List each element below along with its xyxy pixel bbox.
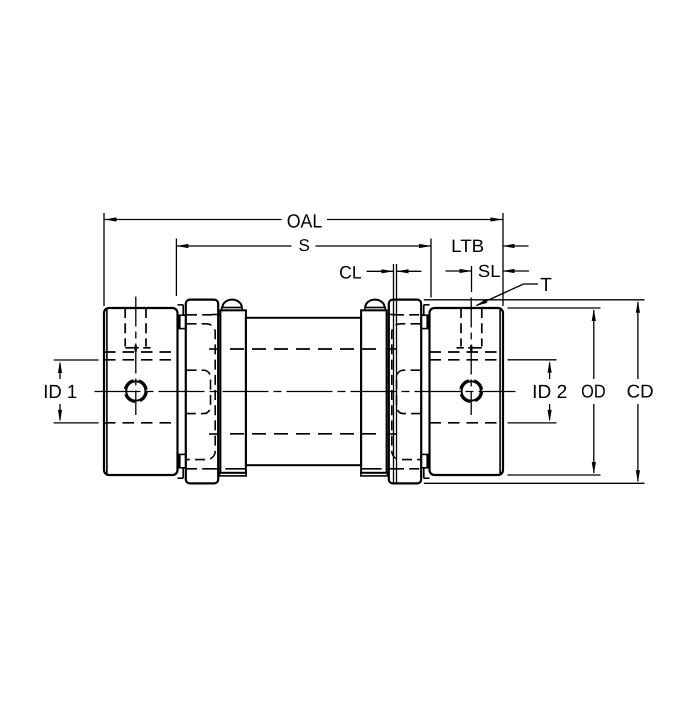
left lube plug plate	[222, 308, 242, 311]
left seal gland bottom	[178, 454, 186, 467]
left cover flange	[186, 300, 218, 484]
left set screw hole side dashed	[124, 308, 126, 347]
right hub keyway hidden line	[430, 351, 504, 353]
left sleeve barrel top line	[212, 314, 221, 316]
svg-text:S: S	[299, 236, 310, 255]
left hub face chamfer line	[106, 310, 108, 474]
left sleeve barrel bottom line	[212, 468, 246, 470]
right hub body	[430, 308, 504, 475]
right seal gland bottom	[421, 454, 429, 467]
center spool cylinder	[246, 318, 361, 465]
T leader line	[476, 284, 539, 306]
svg-text:CL: CL	[339, 262, 362, 282]
left junction step bottom	[178, 468, 184, 478]
ID 1 dimension line top	[58, 361, 62, 379]
right hub bore bottom hidden line	[430, 422, 504, 424]
OD bottom extension line	[508, 474, 601, 476]
right hub face chamfer line	[499, 310, 501, 474]
CD dimension line bottom	[636, 404, 640, 482]
OAL left extension line	[103, 213, 105, 306]
svg-text:CD: CD	[627, 381, 654, 402]
ID 2 dimension line top	[548, 361, 552, 379]
right bottom plug plate	[361, 473, 388, 476]
ID 1 label	[43, 382, 77, 403]
CL right outside arrow	[397, 269, 422, 273]
OAL dimension line right	[327, 217, 503, 221]
CL left outside arrow	[367, 269, 394, 273]
LTB outside arrow	[503, 244, 529, 248]
right cover hidden line bottom	[394, 468, 420, 470]
right set screw tapped hole	[460, 380, 482, 402]
S label	[299, 236, 310, 255]
left cover hidden line bottom	[187, 468, 213, 470]
SL right outside arrow	[503, 269, 530, 273]
right lube plug plate	[365, 308, 385, 311]
left set screw hole bottom ticks	[125, 346, 150, 352]
right set screw hole side dashed	[481, 308, 483, 347]
svg-text:OD: OD	[581, 381, 606, 402]
main horizontal centerline	[95, 391, 516, 393]
left sleeve ring	[220, 310, 246, 473]
CL extension lines	[394, 264, 397, 483]
right junction step bottom	[424, 468, 430, 478]
svg-text:SL: SL	[478, 261, 501, 281]
right sleeve barrel bottom line	[362, 468, 396, 470]
ID 2 bottom extension line	[508, 422, 557, 424]
svg-text:ID 2: ID 2	[532, 382, 567, 403]
left cover hidden contour inner	[187, 370, 211, 413]
svg-text:T: T	[540, 275, 552, 296]
right lube plug dome	[365, 300, 384, 308]
spool inner bottom hidden line	[230, 433, 377, 435]
right seal gland top	[421, 315, 429, 328]
right junction step top	[424, 305, 430, 315]
OAL right extension line	[502, 213, 504, 306]
OAL label	[287, 211, 323, 232]
OD top extension line	[508, 307, 601, 309]
ID 1 dimension line bottom	[58, 404, 62, 422]
CD dimension line top	[636, 301, 640, 379]
ID 1 top extension line	[54, 359, 99, 361]
right cover hidden contour outer	[392, 324, 421, 460]
SL left outside arrow	[446, 269, 472, 273]
SL label	[478, 261, 501, 281]
right cover flange	[389, 300, 421, 484]
svg-text:ID 1: ID 1	[43, 382, 77, 403]
ID 2 dimension line bottom	[548, 404, 552, 422]
ID 2 top extension line	[508, 359, 557, 361]
svg-text:OAL: OAL	[287, 211, 323, 232]
ID 2 label	[532, 382, 567, 403]
right cover hidden line top	[394, 314, 420, 316]
CD top extension line	[424, 299, 645, 301]
right set screw hole bottom ticks	[457, 346, 482, 352]
left hub bore bottom hidden line	[104, 422, 178, 424]
left set screw tapped hole	[125, 380, 147, 402]
right set screw centerline	[470, 298, 472, 416]
S right extension line	[430, 239, 432, 298]
OD dimension line bottom	[592, 404, 596, 474]
CD bottom extension line	[424, 482, 645, 484]
left set screw hole side dashed 2	[145, 308, 147, 347]
right sleeve barrel top line	[387, 314, 396, 316]
T label	[540, 275, 552, 296]
right sleeve ring	[361, 310, 387, 473]
left hub bore top hidden line	[104, 359, 178, 361]
right cover hidden contour inner	[397, 370, 421, 413]
left bottom plug plate	[220, 473, 247, 476]
S dimension line right	[316, 244, 432, 248]
svg-text:LTB: LTB	[451, 236, 484, 256]
right cover crossing dashes	[386, 349, 398, 434]
S dimension line left	[176, 244, 291, 248]
OD label	[581, 381, 606, 402]
left junction step top	[178, 305, 184, 315]
right hub bore top hidden line	[430, 359, 504, 361]
LTB label	[451, 236, 484, 256]
spool inner top hidden line	[230, 348, 377, 350]
CL label	[339, 262, 362, 282]
left hub keyway hidden line	[104, 351, 178, 353]
left lube plug dome	[222, 300, 241, 308]
left seal gland top	[178, 315, 186, 328]
S left extension line	[175, 239, 177, 297]
right set screw hole side dashed 2	[460, 308, 462, 347]
ID 1 bottom extension line	[54, 422, 99, 424]
SL extension line	[471, 266, 473, 292]
left cover hidden contour outer	[187, 324, 216, 460]
left hub body	[104, 308, 178, 475]
left set screw centerline	[135, 297, 137, 416]
CD label	[627, 381, 654, 402]
left cover crossing dashes	[209, 349, 221, 434]
left cover hidden line top	[187, 314, 213, 316]
OD dimension line top	[592, 309, 596, 379]
OAL dimension line left	[105, 217, 282, 221]
